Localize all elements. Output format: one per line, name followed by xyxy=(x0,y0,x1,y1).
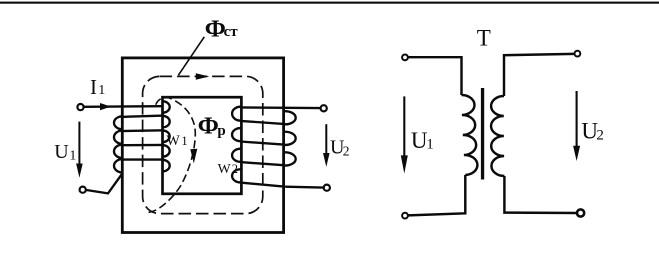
wire bottom-right xyxy=(285,186,323,189)
arrow U2 (left figure) xyxy=(325,124,327,154)
flux Φст arrow xyxy=(196,73,210,79)
winding W2 right half-loops xyxy=(284,111,296,165)
svg-text:1: 1 xyxy=(98,83,105,98)
svg-text:2: 2 xyxy=(343,144,350,159)
core outer outline xyxy=(122,58,283,233)
leader line to Φст label xyxy=(178,37,204,75)
winding W2 crossing wires xyxy=(240,121,285,165)
terminal T primary top xyxy=(402,55,408,61)
arrow U1 (left figure) xyxy=(78,122,80,165)
svg-text:T: T xyxy=(477,26,491,51)
wire bottom-left xyxy=(86,173,122,194)
wire input I1 xyxy=(84,105,162,108)
flux Φр arrowhead xyxy=(190,149,197,164)
terminal T secondary bottom xyxy=(577,209,584,216)
wire top-right xyxy=(241,106,321,109)
svg-text:р: р xyxy=(217,123,225,139)
svg-text:1: 1 xyxy=(70,147,77,162)
terminal bottom-right xyxy=(324,185,330,191)
flux Φр dashed curve xyxy=(147,97,196,213)
svg-text:Ф: Ф xyxy=(198,112,219,139)
svg-text:U: U xyxy=(54,141,69,163)
flux Φст dashed loop xyxy=(143,76,263,213)
svg-text:2: 2 xyxy=(596,128,604,144)
svg-text:ст: ст xyxy=(224,24,239,40)
svg-text:1: 1 xyxy=(426,137,434,153)
wire T secondary bottom xyxy=(504,176,576,213)
terminal bottom-left xyxy=(80,187,86,193)
arrow U1 (schematic) xyxy=(403,96,405,157)
terminal top-right xyxy=(321,105,327,111)
winding W1 right half-loops xyxy=(163,101,170,171)
winding W1 left half-loops xyxy=(114,116,123,172)
terminal top-left xyxy=(77,104,83,110)
top rule xyxy=(0,2,659,4)
coil T primary xyxy=(462,95,478,175)
winding W2 left half-loops xyxy=(232,107,241,183)
terminal T primary bottom xyxy=(402,213,408,219)
arrow I1 xyxy=(100,103,111,110)
wire T secondary top xyxy=(504,54,574,96)
coil T secondary xyxy=(491,96,504,176)
wire T primary bottom xyxy=(408,175,465,215)
wire T primary top xyxy=(408,57,461,95)
svg-text:I: I xyxy=(90,75,97,99)
winding W1 crossing wires xyxy=(121,116,164,160)
core bar T xyxy=(481,88,484,180)
winding W2 exit wire xyxy=(240,183,285,187)
svg-text:W: W xyxy=(218,161,231,176)
svg-text:1: 1 xyxy=(181,134,187,148)
core window xyxy=(163,97,242,194)
arrow U2 (schematic) xyxy=(576,91,578,148)
terminal T secondary top xyxy=(575,51,581,57)
